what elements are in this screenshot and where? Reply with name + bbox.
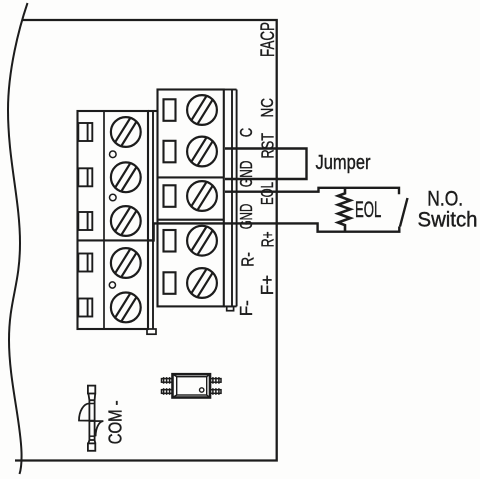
svg-text:F+: F+ [257, 275, 277, 295]
svg-text:GND: GND [237, 160, 257, 187]
svg-text:R-: R- [239, 252, 258, 267]
svg-text:RST: RST [259, 133, 279, 159]
svg-text:Switch: Switch [418, 208, 478, 231]
svg-text:EOL: EOL [355, 198, 381, 222]
svg-text:Jumper: Jumper [316, 150, 371, 173]
svg-text:EOL: EOL [258, 182, 278, 205]
svg-text:F-: F- [236, 300, 256, 316]
svg-text:COM -: COM - [105, 400, 126, 444]
svg-text:GND: GND [237, 204, 257, 230]
svg-text:R+: R+ [258, 231, 278, 247]
svg-text:C: C [237, 128, 256, 137]
svg-text:FACP: FACP [256, 22, 278, 57]
svg-text:NC: NC [258, 98, 277, 117]
